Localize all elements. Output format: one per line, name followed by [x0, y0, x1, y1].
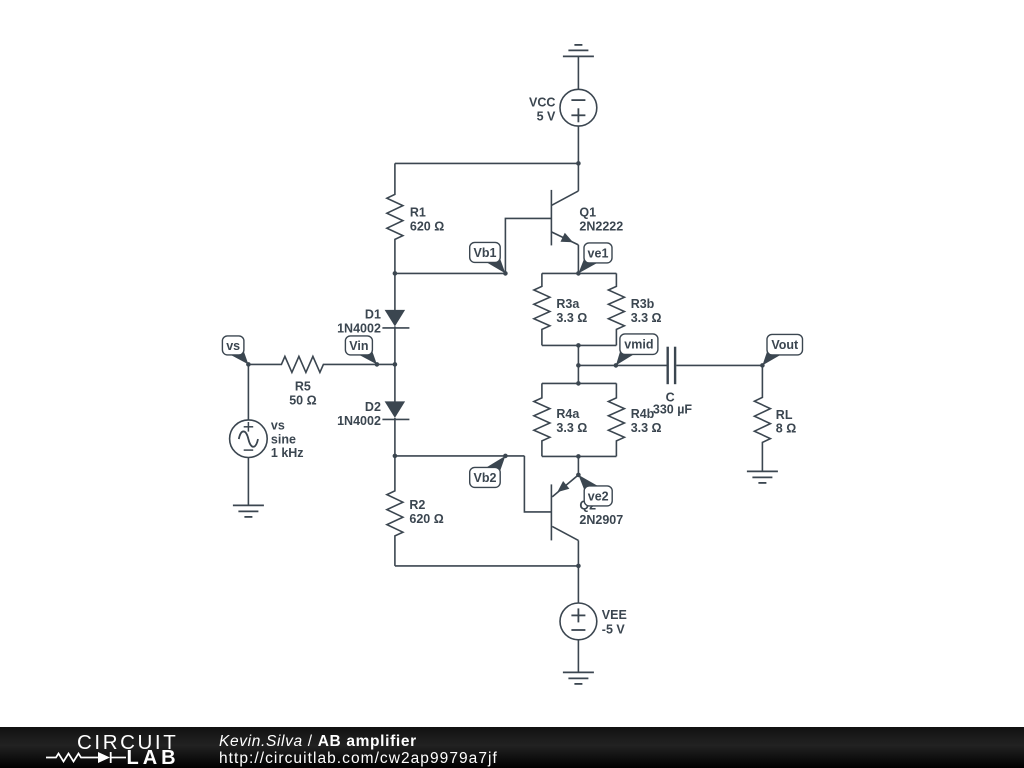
ground (top, above VCC) [563, 45, 594, 57]
node junction Vin/D1/D2 [393, 362, 398, 367]
CircuitLab logo wire-diode symbol [46, 752, 126, 763]
label D1 1N4002 [337, 307, 381, 335]
svg-text:vs: vs [271, 418, 285, 432]
label R5 50 [289, 379, 316, 407]
svg-text:Q1: Q1 [579, 205, 596, 219]
footer bar [0, 727, 1024, 768]
svg-text:R1: R1 [410, 205, 426, 219]
svg-text:1N4002: 1N4002 [337, 414, 381, 428]
label R4b 3.3 [631, 407, 662, 435]
wire R4 pair bottom rail [542, 455, 617, 457]
svg-text:R4b: R4b [631, 407, 655, 421]
wire Q1 emitter to ve1 [577, 245, 579, 274]
diode D2 1N4002 [382, 364, 409, 456]
label R2 620 [409, 498, 443, 526]
node Vb2 [503, 454, 508, 459]
wire vmid to capacitor C [578, 364, 666, 366]
svg-text:D2: D2 [365, 400, 381, 414]
svg-text:RL: RL [776, 408, 793, 422]
CircuitLab logo wordmark CIRCUIT [77, 731, 178, 754]
svg-text:-5 V: -5 V [602, 622, 626, 636]
svg-text:50 Ω: 50 Ω [289, 393, 316, 407]
capacitor C 330uF [668, 347, 675, 385]
resistor R1 620 [387, 163, 403, 273]
node junction R4 top [576, 381, 581, 386]
svg-text:R4a: R4a [556, 407, 580, 421]
node vs [246, 362, 251, 367]
svg-text:Vb2: Vb2 [473, 471, 496, 485]
resistor R4a 3.3 [534, 383, 550, 456]
voltage source VCC (5 V) [560, 89, 597, 126]
label R3b 3.3 [631, 297, 662, 325]
svg-text:sine: sine [271, 432, 296, 446]
wire Vb2 rail [395, 455, 525, 457]
resistor R5 50 (series input) [248, 356, 395, 372]
wire R4 bottom to ve2 [577, 456, 579, 475]
label D2 1N4002 [337, 400, 381, 428]
label node Vb1 [470, 242, 506, 273]
node vmid branch junction [576, 363, 581, 368]
wire vs to ground [247, 458, 249, 506]
wire R4 pair top rail [542, 382, 617, 384]
label VCC 5 V [529, 95, 556, 123]
node junction R3 bottom [576, 343, 581, 348]
label node Vin [345, 336, 377, 365]
node Vin [375, 362, 380, 367]
transistor Q2 2N2907 (PNP) [551, 475, 578, 541]
node Vout [760, 363, 765, 368]
resistor R3b 3.3 [608, 273, 624, 345]
voltage source VEE (-5 V) [560, 603, 597, 640]
svg-text:620 Ω: 620 Ω [410, 219, 444, 233]
label R4a 3.3 [556, 407, 587, 435]
wire Q2 collector to VEE [577, 540, 579, 566]
footer url [219, 750, 498, 767]
svg-text:3.3 Ω: 3.3 Ω [556, 421, 587, 435]
svg-text:Kevin.Silva / AB amplifier: Kevin.Silva / AB amplifier [219, 733, 417, 750]
svg-text:VEE: VEE [602, 608, 627, 622]
wire R3 pair top rail [542, 272, 617, 274]
node junction VCC/R1 [576, 161, 581, 166]
svg-text:8 Ω: 8 Ω [776, 421, 796, 435]
resistor R3a 3.3 [534, 273, 550, 345]
label vs sine 1 kHz [271, 418, 304, 460]
svg-text:http://circuitlab.com/cw2ap997: http://circuitlab.com/cw2ap9979a7jf [219, 750, 498, 767]
label Q2 2N2907 [579, 498, 623, 527]
footer title Kevin.Silva / AB amplifier [219, 733, 417, 750]
label R1 620 [410, 205, 444, 233]
wire Vb1 to R1/D1 column [395, 272, 506, 274]
node junction VEE/R2 rail [576, 564, 581, 569]
ground (below vs) [233, 505, 264, 517]
node Vb1 junction [503, 271, 508, 276]
svg-text:R5: R5 [295, 379, 311, 393]
node junction R1/D1 [393, 271, 398, 276]
label R3a 3.3 [556, 297, 587, 325]
node ve1 junction [576, 271, 581, 276]
svg-text:1 kHz: 1 kHz [271, 446, 304, 460]
resistor RL 8 [754, 365, 770, 471]
wire VCC rail to R1 [395, 162, 579, 164]
resistor R2 620 [387, 456, 403, 566]
wire capacitor to Vout [676, 364, 762, 366]
CircuitLab logo wordmark LAB [127, 747, 180, 768]
node junction R4 bottom [576, 454, 581, 459]
label node ve1 [578, 243, 612, 274]
label node Vout [762, 334, 802, 365]
svg-text:R2: R2 [409, 498, 425, 512]
label VEE -5 V [602, 608, 627, 636]
svg-text:620 Ω: 620 Ω [409, 512, 443, 526]
resistor R4b 3.3 [608, 383, 624, 456]
wire R3 bottom to R4 top [577, 345, 579, 383]
svg-text:ve2: ve2 [588, 490, 609, 504]
svg-text:3.3 Ω: 3.3 Ω [631, 311, 662, 325]
svg-text:Vin: Vin [349, 339, 368, 353]
node junction D2/R2 [393, 454, 398, 459]
diode D1 1N4002 [382, 273, 409, 364]
svg-text:1N4002: 1N4002 [337, 321, 381, 335]
wire VCC to Q1 collector [577, 126, 579, 191]
svg-text:R3b: R3b [631, 297, 655, 311]
svg-text:VCC: VCC [529, 95, 555, 109]
svg-text:2N2907: 2N2907 [579, 513, 623, 527]
svg-text:5 V: 5 V [537, 109, 556, 123]
label Q1 2N2222 [579, 205, 623, 233]
label node Vb2 [470, 456, 506, 488]
label RL 8 [776, 408, 796, 436]
voltage source vs (sine 1 kHz) [230, 364, 268, 457]
svg-text:vmid: vmid [624, 338, 653, 352]
wire Q2 base [524, 456, 551, 512]
svg-text:Vout: Vout [771, 338, 799, 352]
wire R2 bottom rail [395, 565, 579, 567]
svg-text:3.3 Ω: 3.3 Ω [556, 311, 587, 325]
label node ve2 [578, 475, 612, 506]
node ve2 [576, 473, 581, 478]
wire to VEE source [577, 566, 579, 603]
wire Q1 base [505, 218, 551, 273]
wire VEE to ground [577, 640, 579, 673]
node vmid [614, 363, 619, 368]
wire R3 pair bottom rail [542, 344, 617, 346]
svg-text:R3a: R3a [556, 297, 580, 311]
ground (below RL) [747, 471, 778, 483]
wire top ground to VCC [577, 56, 579, 89]
svg-text:LAB: LAB [127, 747, 180, 768]
svg-text:2N2222: 2N2222 [579, 219, 623, 233]
svg-text:D1: D1 [365, 307, 381, 321]
label node vmid [616, 334, 658, 366]
svg-text:Vb1: Vb1 [473, 246, 496, 260]
ground (below VEE) [563, 672, 594, 684]
svg-text:3.3 Ω: 3.3 Ω [631, 421, 662, 435]
label C 330uF [653, 390, 693, 416]
label node vs [222, 336, 248, 365]
transistor Q1 2N2222 (NPN) [551, 190, 578, 246]
svg-text:330 µF: 330 µF [653, 402, 693, 416]
svg-text:vs: vs [226, 339, 240, 353]
svg-text:ve1: ve1 [588, 247, 609, 261]
